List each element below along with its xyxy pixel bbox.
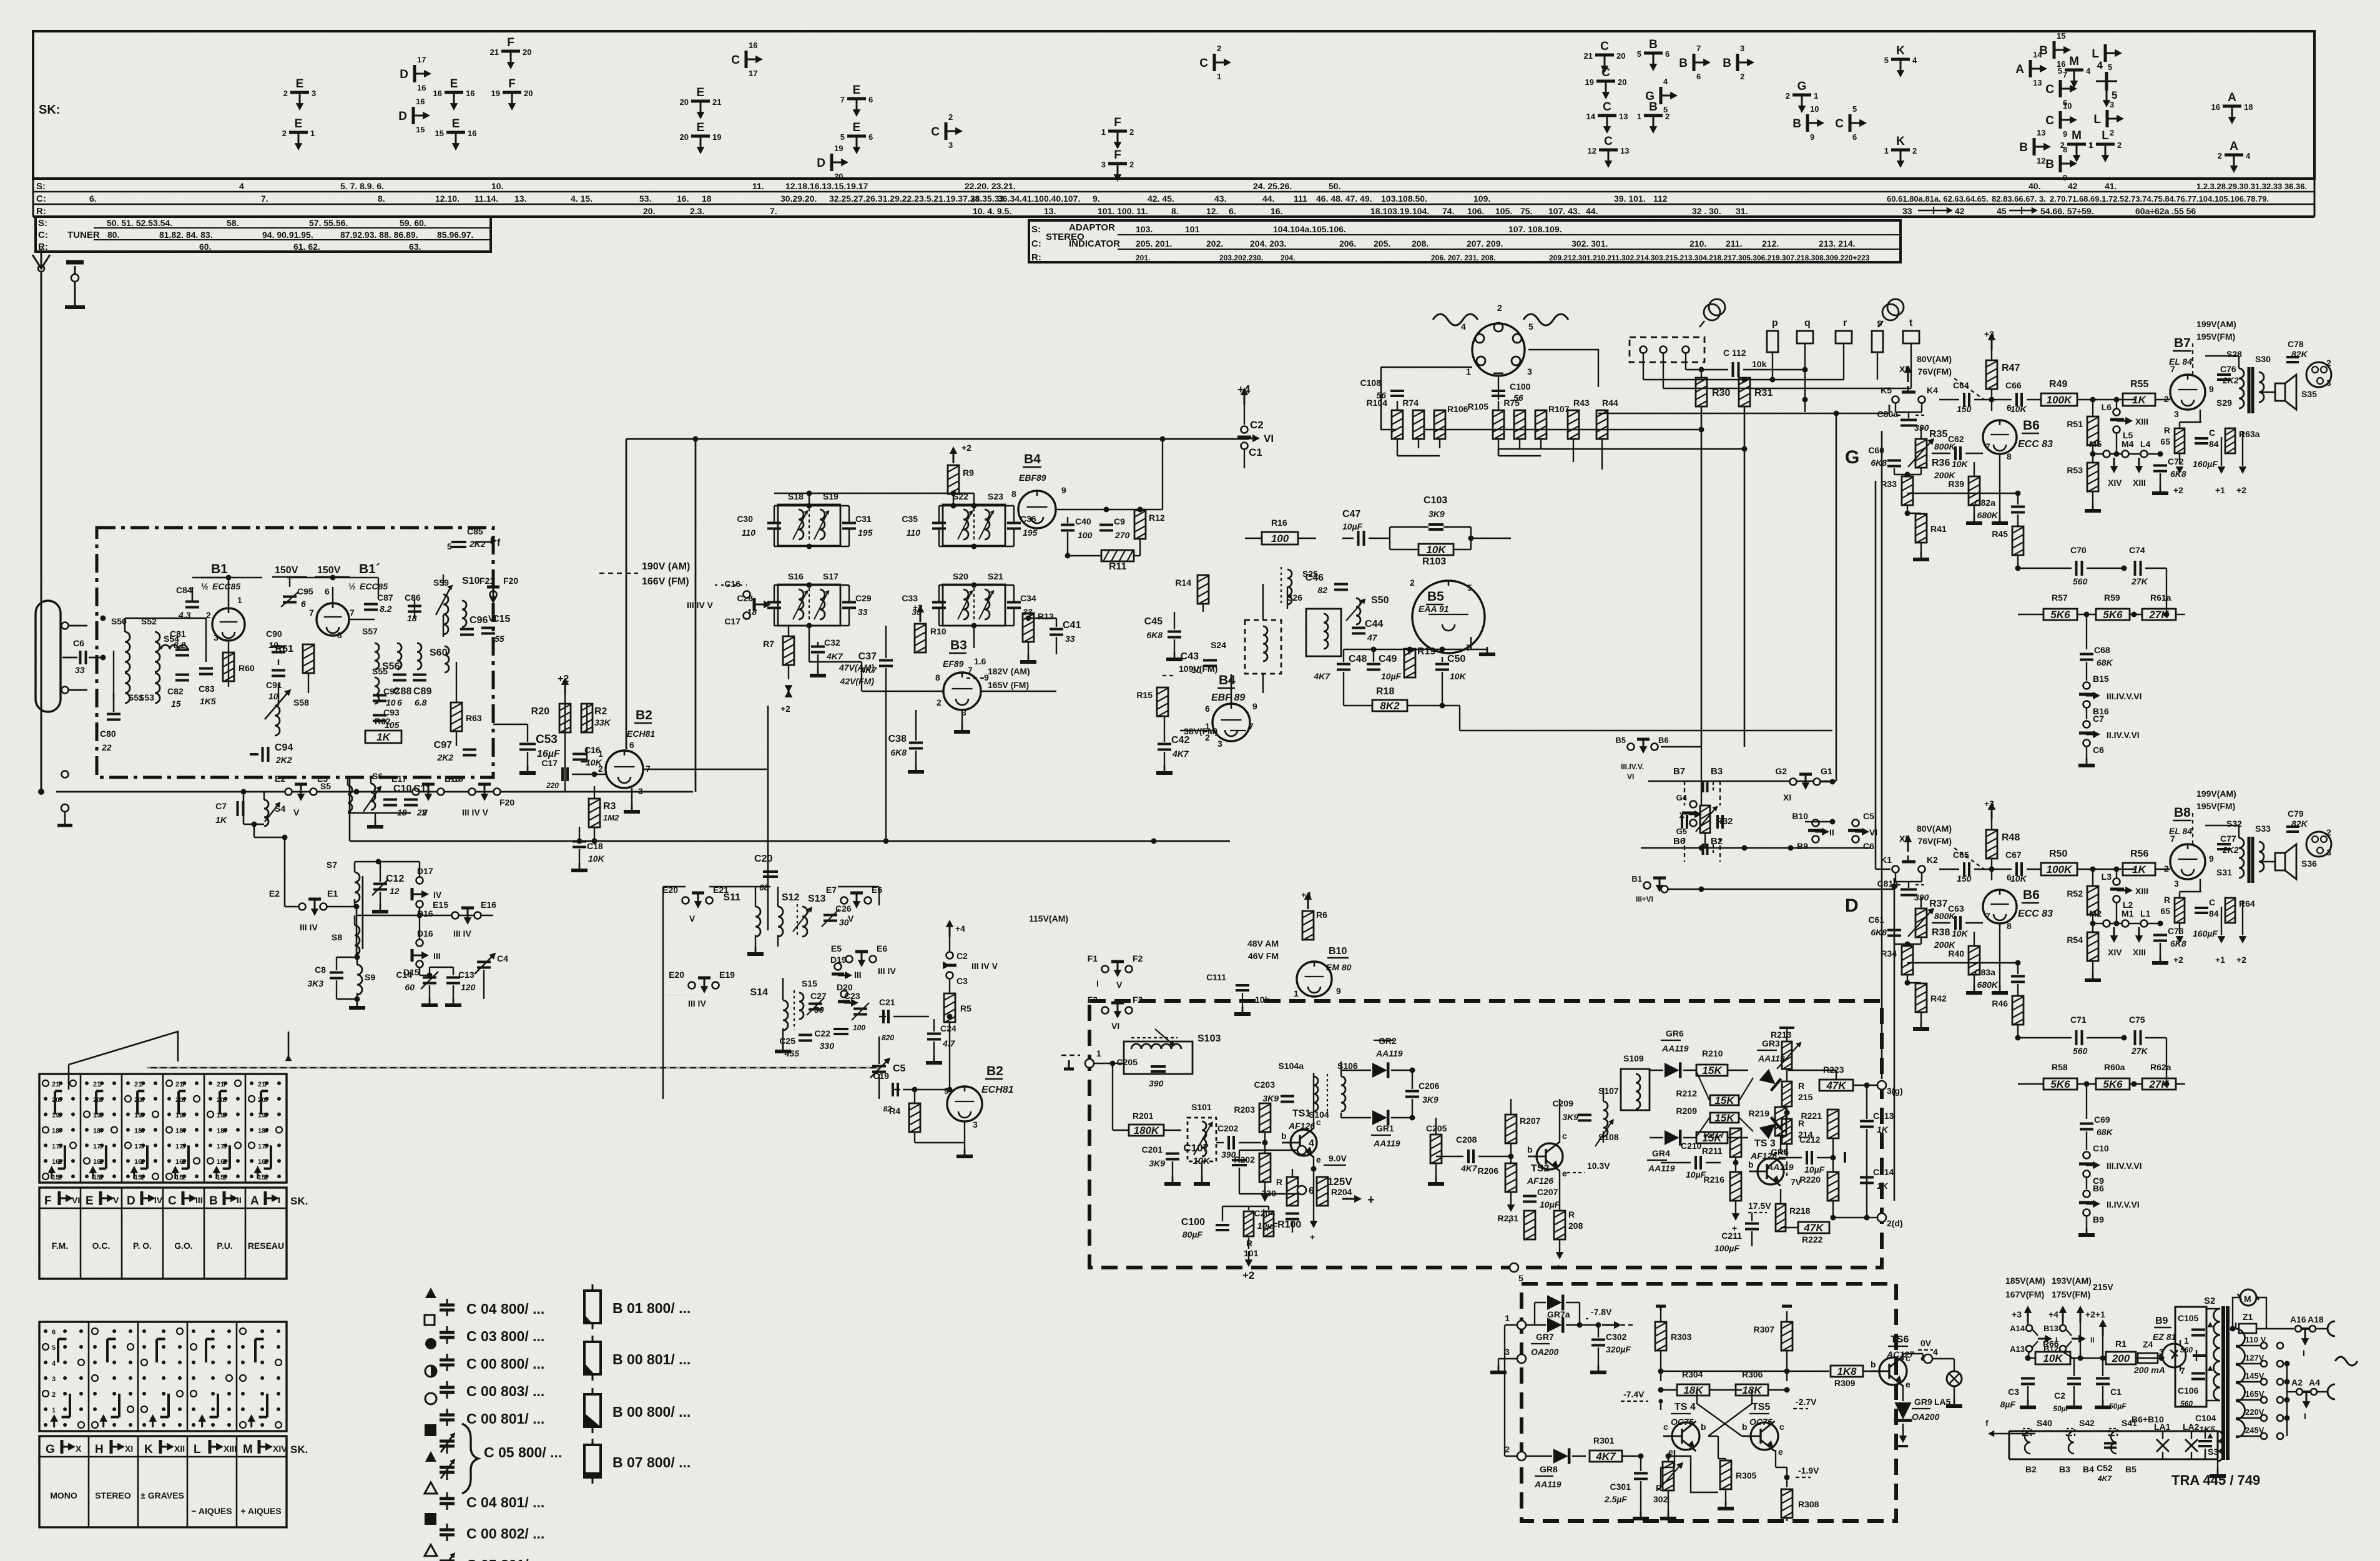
- capacitor C49: [1367, 663, 1380, 666]
- svg-text:C16: C16: [724, 579, 740, 589]
- svg-text:145V: 145V: [2245, 1371, 2264, 1381]
- svg-text:B1: B1: [1631, 874, 1642, 884]
- svg-text:3: 3: [52, 1376, 56, 1383]
- svg-text:C2: C2: [2054, 1391, 2065, 1401]
- triode B1' 1/2 ECC85: [317, 603, 349, 636]
- svg-text:− AIQUES: − AIQUES: [191, 1506, 232, 1516]
- svg-text:B9: B9: [2093, 1214, 2104, 1224]
- svg-text:R33: R33: [1881, 479, 1897, 489]
- filament rail box: [2009, 1431, 2218, 1432]
- svg-text:S58: S58: [293, 697, 309, 707]
- svg-text:18.103.19.: 18.103.19.: [1370, 206, 1412, 216]
- pickup arcs: [1433, 314, 1478, 325]
- svg-text:6.: 6.: [1229, 206, 1236, 216]
- svg-text:C207: C207: [1537, 1187, 1558, 1197]
- wire IF top bus: [774, 493, 953, 494]
- svg-text:33: 33: [1065, 634, 1075, 644]
- svg-text:S5: S5: [320, 781, 331, 791]
- svg-text:1.6: 1.6: [974, 656, 986, 666]
- svg-text:3: 3: [214, 633, 219, 643]
- resistor R20: [559, 704, 571, 732]
- switch C2 C3: [949, 925, 951, 937]
- svg-text:C73: C73: [2168, 926, 2184, 936]
- svg-text:VI: VI: [1111, 1021, 1119, 1031]
- svg-text:5: 5: [1637, 49, 1641, 59]
- wire det to volume: [1460, 730, 1832, 732]
- capacitor C40: [1061, 524, 1074, 526]
- svg-text:+2: +2: [2085, 1309, 2095, 1319]
- svg-text:XIII: XIII: [2135, 886, 2148, 896]
- frame: SK switch table outer box: [33, 31, 2314, 179]
- transistor TS6 AC127: [1879, 1357, 1907, 1385]
- svg-text:84: 84: [2209, 909, 2219, 918]
- svg-text:C 00 803/ ...: C 00 803/ ...: [466, 1383, 544, 1399]
- svg-text:S101: S101: [1191, 1102, 1212, 1112]
- svg-text:SK.: SK.: [290, 1444, 308, 1455]
- legend symbol C 04 800/ ...: [425, 1288, 436, 1298]
- resistor R13: [1023, 613, 1034, 642]
- svg-text:1M2: 1M2: [603, 813, 619, 822]
- svg-text:C85: C85: [467, 526, 483, 536]
- switch contact 4-5: [2105, 72, 2108, 91]
- coil S8: [355, 925, 360, 955]
- svg-text:44.: 44.: [1586, 206, 1598, 216]
- svg-text:16µF: 16µF: [537, 749, 561, 759]
- capacitor C302 320uF: [1591, 1339, 1605, 1341]
- wires S18 S19 tank: [774, 505, 849, 506]
- svg-text:b: b: [1701, 1422, 1706, 1432]
- svg-text:10K: 10K: [1426, 544, 1447, 556]
- svg-text:1K: 1K: [215, 815, 227, 825]
- svg-text:27K: 27K: [2131, 1046, 2148, 1056]
- svg-text:LA1: LA1: [2154, 1422, 2171, 1432]
- svg-text:9: 9: [2209, 384, 2214, 394]
- svg-text:+4: +4: [955, 923, 965, 933]
- svg-text:R306: R306: [1742, 1369, 1763, 1379]
- svg-text:10K: 10K: [1952, 459, 1969, 469]
- svg-text:D: D: [398, 110, 407, 123]
- capacitor C46: [1334, 583, 1348, 586]
- svg-text:R:: R:: [36, 206, 46, 217]
- svg-text:K5: K5: [1881, 385, 1892, 395]
- svg-text:1: 1: [1294, 988, 1299, 998]
- svg-text:L: L: [194, 1443, 201, 1456]
- svg-text:C31: C31: [855, 514, 872, 524]
- resistor R220: [1827, 1172, 1839, 1201]
- capacitor C18: [573, 840, 586, 843]
- svg-text:L: L: [2092, 47, 2099, 61]
- trimmer C27: [809, 1003, 822, 1005]
- wire IF out to B4b: [996, 691, 997, 692]
- resistor R207: [1505, 1115, 1517, 1143]
- svg-text:C: C: [731, 54, 740, 67]
- svg-text:100µF: 100µF: [1714, 1243, 1739, 1253]
- svg-text:320µF: 320µF: [1606, 1344, 1631, 1354]
- svg-text:R219: R219: [1749, 1108, 1770, 1118]
- potentiometer R37: [1915, 909, 1927, 937]
- wire C53 C16: [519, 743, 536, 746]
- potentiometer R35: [1915, 439, 1927, 468]
- svg-text:54.66. 57÷59.: 54.66. 57÷59.: [2040, 206, 2094, 216]
- svg-text:R222: R222: [1802, 1234, 1823, 1244]
- resistor R62a 27K: [2142, 1078, 2176, 1090]
- coils S107 S108 S109: [1603, 1101, 1608, 1136]
- svg-text:2: 2: [264, 1158, 268, 1166]
- capacitor C42: [1158, 743, 1171, 746]
- legend symbol C 05 800: [425, 1425, 436, 1435]
- lamp LA5: [1947, 1371, 1962, 1386]
- diode GR9 OA200: [1894, 1402, 1911, 1419]
- pentode B4 EBF89: [1018, 491, 1056, 528]
- svg-text:C301: C301: [1610, 1482, 1631, 1492]
- resistor R3: [589, 799, 600, 827]
- svg-text:16: 16: [749, 41, 757, 50]
- svg-text:4: 4: [58, 1127, 62, 1135]
- svg-text:5: 5: [1852, 104, 1857, 114]
- capacitor C71 560: [2075, 1030, 2078, 1045]
- resistor C205b: [1430, 1135, 1442, 1163]
- svg-text:F2: F2: [1133, 953, 1143, 963]
- coil S103 + C205: [1124, 1041, 1192, 1074]
- svg-text:A: A: [250, 1194, 259, 1208]
- potentiometer R213: [1782, 1041, 1792, 1069]
- capacitor C103: [1428, 523, 1443, 526]
- svg-text:R308: R308: [1798, 1499, 1819, 1509]
- svg-text:ECH81: ECH81: [981, 1085, 1014, 1095]
- svg-text:C37: C37: [858, 651, 877, 662]
- svg-text:2: 2: [1129, 127, 1134, 137]
- svg-text:VI: VI: [72, 1195, 80, 1205]
- resistor R1 200: [2106, 1352, 2136, 1364]
- svg-text:0V: 0V: [1920, 1338, 1932, 1348]
- resistor R304 18K: [1677, 1384, 1709, 1396]
- svg-text:q: q: [1804, 318, 1811, 328]
- resistor R15: [1157, 687, 1168, 716]
- svg-text:F1: F1: [1088, 953, 1098, 963]
- magic eye B10 EM80: [1297, 962, 1332, 997]
- svg-text:80V(AM): 80V(AM): [1917, 824, 1952, 834]
- capacitor C25: [799, 1034, 812, 1037]
- svg-text:C212: C212: [1799, 1135, 1821, 1145]
- svg-text:B2: B2: [986, 1064, 1003, 1078]
- svg-text:V: V: [293, 807, 300, 817]
- capacitor C85: [451, 541, 466, 543]
- wires S22 S23 tank: [939, 505, 1014, 506]
- svg-text:C 00 802/ ...: C 00 802/ ...: [466, 1525, 544, 1542]
- antenna mast: [41, 268, 42, 586]
- svg-text:GR4: GR4: [1652, 1148, 1670, 1158]
- svg-text:16.: 16.: [677, 194, 689, 204]
- svg-text:106.: 106.: [1467, 206, 1484, 216]
- svg-text:C206: C206: [1419, 1081, 1440, 1091]
- svg-text:31.: 31.: [1736, 206, 1748, 216]
- svg-text:80V(AM): 80V(AM): [1917, 354, 1952, 364]
- svg-text:4K7: 4K7: [1313, 671, 1330, 681]
- capacitor C211 100uF: [1745, 1223, 1759, 1225]
- svg-text:XIV: XIV: [2108, 947, 2122, 957]
- svg-text:R62a: R62a: [2150, 1062, 2171, 1072]
- svg-text:3: 3: [58, 1143, 62, 1150]
- wire B3 grid: [809, 626, 810, 662]
- capacitor C20: [763, 870, 778, 873]
- svg-text:G: G: [1645, 90, 1655, 103]
- svg-text:R106: R106: [1447, 404, 1468, 414]
- svg-text:D19: D19: [830, 955, 847, 965]
- svg-text:180K: 180K: [1134, 1125, 1160, 1136]
- svg-text:C27: C27: [810, 991, 827, 1001]
- svg-text:GR9: GR9: [1914, 1397, 1932, 1407]
- svg-text:7: 7: [309, 608, 314, 618]
- resistor R307: [1781, 1322, 1792, 1351]
- svg-text:3: 3: [1217, 739, 1222, 749]
- svg-text:II: II: [2090, 1336, 2095, 1344]
- svg-text:C38: C38: [888, 734, 907, 744]
- svg-text:C1: C1: [2110, 1387, 2122, 1397]
- capacitor C6: [79, 651, 82, 664]
- legend battery B 00 800/ ...: [584, 1394, 601, 1427]
- svg-text:10: 10: [268, 691, 278, 701]
- legend symbol C 03 800/ ...: [425, 1315, 435, 1325]
- svg-text:Z1: Z1: [2243, 1312, 2253, 1322]
- svg-text:GR8: GR8: [1540, 1464, 1558, 1474]
- svg-text:21: 21: [490, 47, 499, 57]
- svg-text:R212: R212: [1676, 1088, 1698, 1098]
- svg-text:2: 2: [1912, 146, 1917, 155]
- svg-text:R74: R74: [1402, 398, 1419, 408]
- svg-text:AF126: AF126: [1750, 1151, 1777, 1161]
- svg-text:S53: S53: [139, 692, 154, 702]
- svg-text:R221: R221: [1801, 1111, 1822, 1121]
- svg-text:39. 101.: 39. 101.: [1614, 194, 1646, 204]
- svg-text:3: 3: [1740, 44, 1744, 53]
- capacitor C111: [1236, 984, 1249, 987]
- svg-text:I: I: [1096, 978, 1099, 988]
- svg-text:6K8: 6K8: [890, 747, 907, 757]
- svg-text:212.: 212.: [1762, 239, 1779, 249]
- svg-text:16: 16: [433, 89, 442, 98]
- trimmer C14: [423, 977, 436, 979]
- svg-text:C15: C15: [492, 614, 510, 624]
- svg-text:76V(FM): 76V(FM): [1918, 367, 1952, 377]
- resistor R55 1K: [2123, 393, 2155, 406]
- svg-text:4: 4: [2246, 151, 2251, 160]
- svg-text:4K7: 4K7: [2097, 1474, 2112, 1483]
- svg-text:10K: 10K: [2010, 404, 2027, 414]
- output socket C78: [2286, 356, 2299, 358]
- svg-text:13: 13: [1619, 112, 1628, 121]
- svg-text:+1: +1: [2215, 485, 2225, 495]
- svg-text:L4: L4: [2140, 439, 2151, 449]
- resistor R16: [1262, 532, 1298, 544]
- svg-text:2: 2: [948, 112, 953, 122]
- svg-text:1K: 1K: [1877, 1125, 1889, 1135]
- svg-text:60a÷62a .55 56: 60a÷62a .55 56: [2135, 206, 2196, 216]
- svg-text:-7.4V: -7.4V: [1623, 1389, 1645, 1399]
- svg-text:S42: S42: [2079, 1418, 2095, 1428]
- svg-text:10µF: 10µF: [1804, 1165, 1825, 1174]
- svg-text:G: G: [1845, 447, 1859, 468]
- svg-text:C: C: [2209, 428, 2215, 438]
- svg-text:A4: A4: [2309, 1377, 2320, 1387]
- svg-text:110: 110: [907, 528, 921, 538]
- svg-text:5: 5: [1884, 56, 1889, 65]
- svg-text:C46: C46: [1306, 573, 1324, 583]
- tuner table lines: [94, 227, 491, 229]
- svg-text:6K8: 6K8: [1146, 630, 1163, 640]
- capacitor C97: [463, 749, 476, 751]
- svg-text:K2: K2: [1927, 855, 1938, 865]
- svg-text:B2: B2: [1711, 836, 1723, 847]
- resistor R222 47K: [1798, 1222, 1829, 1233]
- svg-text:GR7: GR7: [1536, 1332, 1554, 1342]
- svg-text:C23: C23: [844, 991, 860, 1001]
- capacitor C208 4K7: [1467, 1150, 1470, 1163]
- resistor R34: [1902, 946, 1913, 975]
- svg-text:9.0V: 9.0V: [1329, 1153, 1347, 1163]
- diode GR4 AA119: [1665, 1130, 1679, 1145]
- svg-text:33K: 33K: [594, 717, 611, 727]
- switch D19: [835, 963, 842, 970]
- resistor R42: [1915, 983, 1927, 1012]
- svg-text:R223: R223: [1823, 1065, 1844, 1075]
- svg-text:1K8: 1K8: [1837, 1366, 1857, 1377]
- svg-text:R57: R57: [2052, 593, 2068, 603]
- svg-text:15K: 15K: [1714, 1112, 1735, 1124]
- capacitor C213 1K: [1860, 1120, 1874, 1123]
- resistor R223 47K: [1819, 1080, 1853, 1091]
- svg-text:104.104a.105.106.: 104.104a.105.106.: [1273, 224, 1346, 234]
- svg-text:C108: C108: [1360, 378, 1382, 388]
- capacitor C62: [1954, 446, 1957, 460]
- svg-text:C: C: [1199, 57, 1208, 70]
- capacitor C23: [853, 1008, 867, 1010]
- svg-text:75.: 75.: [1520, 206, 1532, 216]
- svg-text:ECC85: ECC85: [360, 581, 388, 591]
- capacitor C61: [1887, 929, 1901, 932]
- wire B4b to S24: [1231, 674, 1232, 704]
- svg-text:2: 2: [2110, 128, 2114, 137]
- svg-text:R66: R66: [2043, 1339, 2059, 1349]
- svg-text:C6: C6: [1863, 841, 1874, 851]
- svg-text:R60a: R60a: [2104, 1062, 2125, 1072]
- resistor R46 22: [2012, 996, 2023, 1025]
- tap selector col: [2277, 1342, 2283, 1349]
- matrix cell 1: [85, 1081, 89, 1085]
- svg-text:10: 10: [386, 697, 396, 707]
- svg-text:33: 33: [1902, 206, 1912, 216]
- svg-text:C10: C10: [393, 784, 411, 794]
- wires S16 S17 tank: [774, 584, 849, 586]
- matrix2 cell 1: [92, 1328, 98, 1334]
- resistor R103: [1419, 544, 1453, 555]
- svg-text:E17: E17: [391, 774, 407, 784]
- svg-text:+2: +2: [2173, 955, 2183, 965]
- DIN box wire: [1381, 367, 1397, 430]
- resistor R63a 1K5: [2225, 428, 2235, 453]
- svg-text:206.: 206.: [1339, 239, 1356, 249]
- svg-text:4: 4: [1663, 77, 1668, 86]
- svg-text:24. 25.26.: 24. 25.26.: [1253, 181, 1292, 191]
- svg-text:46V FM: 46V FM: [1248, 951, 1279, 961]
- flipflop output wire: [1801, 1389, 1829, 1391]
- svg-text:5K6: 5K6: [2050, 609, 2070, 621]
- svg-text:3: 3: [1505, 1347, 1510, 1357]
- svg-text:C 04 801/ ...: C 04 801/ ...: [466, 1494, 544, 1510]
- svg-text:68K: 68K: [2097, 1127, 2113, 1137]
- svg-text:C84: C84: [176, 585, 192, 595]
- svg-text:+3: +3: [1984, 329, 1994, 339]
- svg-text:2(d): 2(d): [1887, 1218, 1903, 1228]
- svg-text:B 01 800/ ...: B 01 800/ ...: [612, 1300, 691, 1316]
- svg-text:E: E: [86, 1194, 94, 1208]
- svg-text:A16: A16: [2290, 1314, 2306, 1324]
- svg-text:R206: R206: [1478, 1166, 1499, 1176]
- svg-text:OC75: OC75: [1671, 1417, 1694, 1427]
- resistor R64 1K5: [2225, 898, 2235, 923]
- svg-text:S3: S3: [2208, 1447, 2218, 1457]
- cap mid stub: [1844, 1152, 1846, 1163]
- svg-text:R211: R211: [1702, 1146, 1723, 1156]
- svg-text:+4: +4: [1237, 383, 1251, 396]
- svg-text:S29: S29: [2216, 398, 2232, 408]
- capacitor C81a: [1901, 889, 1917, 891]
- svg-text:+4: +4: [1301, 890, 1311, 900]
- svg-text:204.: 204.: [1281, 254, 1295, 262]
- svg-text:2.5µF: 2.5µF: [1604, 1494, 1628, 1504]
- svg-text:S31: S31: [2216, 867, 2232, 877]
- svg-text:44.: 44.: [1262, 194, 1274, 204]
- wire osc: [885, 1022, 887, 1086]
- svg-text:IV: IV: [154, 1195, 163, 1205]
- svg-text:C24: C24: [940, 1023, 956, 1033]
- svg-text:R: R: [1656, 1483, 1662, 1493]
- double diode B5 EAA91: [1412, 581, 1485, 653]
- svg-text:2: 2: [2164, 864, 2169, 874]
- svg-text:100K: 100K: [2047, 394, 2073, 406]
- svg-text:3: 3: [1101, 160, 1106, 169]
- svg-text:R: R: [1276, 1177, 1282, 1187]
- svg-text:41.: 41.: [2105, 181, 2117, 191]
- resistor R216: [1730, 1172, 1741, 1201]
- long wires to amps: [1701, 406, 1703, 747]
- svg-text:V: V: [848, 913, 854, 923]
- svg-text:S23: S23: [988, 491, 1003, 501]
- svg-text:B: B: [1679, 57, 1688, 70]
- coil S13: [802, 907, 807, 937]
- svg-text:3: 3: [182, 1143, 185, 1150]
- decoder feed cluster C107: [1232, 1159, 1247, 1161]
- svg-text:101: 101: [1185, 224, 1200, 234]
- svg-text:20.: 20.: [643, 206, 655, 216]
- coil S101: [1188, 1118, 1216, 1161]
- svg-text:560: 560: [2180, 1346, 2193, 1354]
- diode GR3 AA119: [1759, 1069, 1776, 1084]
- IF can S24: [1245, 620, 1281, 674]
- volume pot R32: [1700, 805, 1710, 833]
- matrix2 cell 0: [44, 1329, 47, 1333]
- svg-text:4: 4: [1461, 322, 1466, 332]
- svg-text:C213: C213: [1873, 1111, 1894, 1121]
- svg-text:C209: C209: [1553, 1098, 1574, 1108]
- resistor R30: [1696, 378, 1707, 406]
- svg-text:C64: C64: [1953, 380, 1969, 390]
- svg-text:E: E: [296, 77, 304, 91]
- coil S7: [355, 872, 360, 902]
- svg-text:C97: C97: [434, 740, 452, 751]
- svg-text:20: 20: [524, 89, 533, 98]
- arrow 45-54: [2009, 210, 2033, 212]
- svg-text:C68: C68: [2094, 645, 2110, 655]
